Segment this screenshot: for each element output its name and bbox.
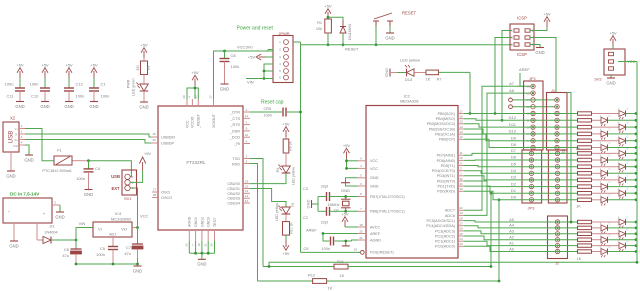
capacitor C8 100n [220, 50, 240, 92]
capacitor C6 47u [62, 240, 81, 264]
ground rail of regulator [75, 258, 143, 273]
svg-text:PC3(ADC3): PC3(ADC3) [435, 229, 456, 233]
svg-text:100n: 100n [101, 94, 110, 99]
svg-text:C4: C4 [95, 166, 101, 171]
wire R11 to PD1 [490, 192, 493, 268]
svg-text:+5V: +5V [144, 151, 152, 156]
svg-text:A6: A6 [509, 88, 515, 93]
svg-text:C12: C12 [76, 82, 84, 87]
svg-text:MEGA328: MEGA328 [400, 99, 419, 104]
capacitor C3 22pf [303, 184, 358, 201]
svg-text:PD3(INT1): PD3(INT1) [437, 174, 456, 178]
svg-text:R1: R1 [317, 21, 322, 25]
ground ICSP pin6 [530, 45, 545, 55]
svg-text:A1: A1 [509, 240, 515, 245]
resistor R12 1K [258, 273, 499, 291]
LED array A5-A0 with 1K resistors [577, 217, 638, 261]
wire D6 row [464, 155, 577, 161]
svg-text:D0: D0 [511, 195, 517, 200]
svg-text:C: C [627, 161, 629, 164]
svg-text:PC2(ADC2): PC2(ADC2) [435, 234, 456, 238]
capacitor C5 100n [96, 246, 118, 264]
svg-text:D-: D- [15, 133, 18, 136]
svg-text:D13: D13 [405, 77, 413, 82]
svg-text:GND3: GND3 [207, 217, 211, 227]
svg-text:18: 18 [197, 243, 201, 247]
svg-text:PC1(ADC1): PC1(ADC1) [435, 240, 456, 244]
header J3 [548, 150, 567, 203]
svg-text:C10: C10 [31, 94, 39, 99]
svg-text:1K: 1K [576, 205, 581, 209]
header JP3 [522, 150, 542, 211]
svg-text:R9 1K: R9 1K [289, 141, 293, 151]
svg-text:D9: D9 [511, 135, 517, 140]
LED yellow D13 [384, 57, 420, 82]
svg-text:_RI: _RI [233, 142, 240, 146]
svg-text:22: 22 [245, 184, 249, 188]
svg-text:C5: C5 [100, 246, 106, 251]
wire D5 row [464, 161, 577, 166]
svg-text:VCC: VCC [185, 120, 189, 128]
+5V to FT232 VCC [187, 70, 199, 99]
+5V from SV1 center [130, 151, 151, 182]
svg-text:C: C [609, 194, 611, 197]
svg-text:C11: C11 [6, 94, 14, 99]
svg-text:C: C [609, 155, 611, 158]
svg-text:3V3OUT: 3V3OUT [212, 113, 216, 128]
switch S1 RESET [373, 11, 416, 47]
USB connector X2 [3, 116, 25, 153]
wire D11 row [464, 122, 577, 127]
ground crystal caps [306, 197, 319, 212]
svg-text:PC6(/RESET): PC6(/RESET) [370, 251, 394, 255]
svg-text:LED yellow: LED yellow [400, 57, 420, 62]
svg-text:SV1: SV1 [124, 196, 132, 201]
FT232 pins OSCI OSCO [152, 188, 172, 201]
svg-text:22pf: 22pf [321, 184, 329, 188]
svg-text:15: 15 [459, 120, 463, 124]
crystal Q1 16MHz [327, 197, 350, 213]
svg-text:AGND: AGND [370, 238, 381, 242]
svg-text:A7: A7 [509, 81, 515, 86]
ground DC jack sleeve [55, 205, 64, 219]
svg-text:VCC: VCC [370, 167, 378, 171]
svg-text:1K: 1K [426, 78, 431, 82]
svg-text:D10: D10 [509, 129, 517, 134]
svg-text:+5V: +5V [191, 70, 199, 75]
svg-text:100n: 100n [231, 64, 240, 69]
svg-text:22: 22 [459, 206, 463, 210]
svg-text:+5V: +5V [343, 143, 351, 148]
svg-text:16: 16 [152, 132, 156, 136]
svg-text:IC2: IC2 [404, 93, 411, 98]
resistor R11 1K [263, 259, 491, 278]
svg-text:F1: F1 [57, 148, 62, 153]
svg-text:31: 31 [459, 182, 463, 186]
ground X2 pin4 [24, 145, 33, 162]
svg-text:17: 17 [209, 95, 213, 99]
svg-text:C: C [627, 240, 629, 243]
svg-text:C3: C3 [303, 187, 308, 191]
svg-text:13: 13 [459, 130, 463, 134]
svg-text:PD4(XCK/T0): PD4(XCK/T0) [432, 169, 456, 173]
svg-text:+5V: +5V [248, 55, 256, 60]
svg-text:VIN: VIN [247, 80, 254, 85]
svg-text:C1: C1 [101, 82, 107, 87]
svg-text:+5V: +5V [140, 42, 148, 47]
svg-text:23: 23 [459, 242, 463, 246]
svg-text:C: C [627, 188, 629, 191]
capacitor C13 reset cap [250, 99, 301, 117]
svg-text:D1: D1 [511, 188, 517, 193]
svg-text:+5V: +5V [341, 211, 349, 216]
svg-text:GND: GND [385, 35, 394, 40]
wire D12 row [464, 115, 577, 120]
wire mid rail to right [268, 262, 637, 268]
wire USBDM [25, 134, 158, 137]
svg-text:D12: D12 [509, 115, 517, 120]
wire ICSP MOSI [530, 38, 556, 93]
svg-text:GND: GND [606, 80, 615, 85]
MEGA328 right pins PB PD ADC PC [426, 109, 464, 248]
FT232 left pins USBDM USBDP [151, 132, 175, 145]
wire D0 row [464, 191, 577, 200]
svg-text:GND: GND [64, 104, 73, 109]
ground DC jack pin [9, 223, 18, 248]
LED green PWR [127, 75, 149, 96]
svg-text:28: 28 [459, 216, 463, 220]
svg-text:GND: GND [341, 188, 350, 193]
svg-text:100n: 100n [96, 252, 105, 257]
svg-text:C: C [627, 135, 629, 138]
svg-text:AREF: AREF [306, 227, 317, 232]
svg-text:ADC6: ADC6 [445, 214, 455, 218]
svg-text:C: C [609, 223, 611, 226]
svg-text:CBUS0: CBUS0 [227, 182, 240, 186]
capacitor C4 100n [76, 159, 101, 197]
svg-text:1K: 1K [576, 147, 581, 151]
svg-text:C8: C8 [231, 53, 237, 58]
svg-text:C: C [609, 246, 611, 249]
capacitor C11 with +5V and GND [5, 62, 25, 109]
svg-text:GND1: GND1 [194, 217, 198, 227]
wire D13 row [464, 113, 577, 115]
svg-text:GND: GND [40, 104, 49, 109]
svg-text:DC In 7,5-14V: DC In 7,5-14V [10, 192, 40, 197]
wire D1 row [464, 186, 577, 193]
svg-text:VCC: VCC [370, 159, 378, 163]
svg-text:26: 26 [210, 243, 214, 247]
svg-text:GND: GND [133, 268, 142, 273]
wire VCC from regulator [130, 188, 149, 228]
wire A1 row [464, 240, 577, 245]
wire D13 to PB5 [439, 72, 472, 115]
wire TXD loop to PD1 [250, 159, 263, 267]
svg-text:EXT: EXT [111, 186, 120, 191]
FT232 pins TXD RXD [232, 154, 250, 166]
svg-text:LED yellow: LED yellow [275, 203, 279, 221]
wire JPWR pin4 pin5 VIN [246, 64, 273, 85]
svg-text:PC4(ADC4/SDA): PC4(ADC4/SDA) [426, 224, 456, 228]
svg-text:14: 14 [245, 194, 249, 198]
FT232 bottom pins AGND GND TEST to ground [185, 216, 217, 266]
svg-text:A5: A5 [509, 217, 515, 222]
+5V to MEGA VCC pins [343, 143, 358, 170]
svg-text:RXD: RXD [232, 162, 240, 166]
DC input connector X1 [3, 192, 60, 224]
svg-text:X2: X2 [10, 116, 16, 121]
svg-text:1K: 1K [340, 273, 345, 278]
ground below PWR LED [139, 91, 148, 110]
svg-text:D3: D3 [511, 175, 517, 180]
svg-text:D11: D11 [509, 122, 517, 127]
wire A6 from ADC6 [464, 88, 533, 216]
svg-text:PD5(T1): PD5(T1) [441, 164, 456, 168]
svg-text:PWR: PWR [127, 79, 131, 88]
MEGA PC6 /RESET pin [354, 248, 395, 255]
wire D2 row [464, 181, 577, 187]
wire RESET vertical from JPWR [299, 45, 302, 253]
svg-text:_DSR: _DSR [229, 129, 240, 133]
svg-text:VIN: VIN [79, 221, 86, 226]
svg-text:+5V: +5V [282, 251, 290, 256]
svg-text:OSCI: OSCI [161, 191, 170, 195]
svg-text:47u: 47u [124, 251, 131, 256]
header J1 [547, 88, 568, 150]
wire JPWR pin1 RESET net [293, 42, 301, 45]
svg-text:GND: GND [220, 86, 229, 91]
svg-text:SV2: SV2 [594, 77, 602, 82]
svg-text:D5: D5 [511, 161, 517, 166]
LED yellow RX [276, 153, 296, 185]
svg-text:23: 23 [245, 179, 249, 183]
svg-text:17: 17 [459, 109, 463, 113]
svg-text:GND: GND [384, 68, 389, 77]
svg-text:+5V: +5V [324, 3, 332, 8]
svg-text:TX: TX [291, 202, 295, 207]
svg-text:1N4148WS: 1N4148WS [348, 24, 352, 40]
svg-text:11: 11 [459, 151, 462, 155]
svg-text:C: C [609, 115, 611, 118]
svg-text:PD2(INT0): PD2(INT0) [437, 179, 456, 183]
svg-text:C2: C2 [303, 216, 308, 220]
regulator IC4 MC33269D [93, 211, 138, 246]
ground MEGA GND pins [341, 178, 358, 193]
svg-text:29: 29 [354, 248, 358, 252]
svg-text:AREF: AREF [519, 67, 530, 72]
svg-text:ADJ: ADJ [109, 233, 116, 237]
svg-text:+5V: +5V [609, 30, 617, 35]
wire D3 row [464, 175, 577, 180]
svg-text:30: 30 [459, 187, 463, 191]
svg-text:PD1(TXD): PD1(TXD) [437, 185, 455, 189]
FT232 top pins VCC VCCIO RESET 3V3OUT [182, 95, 216, 129]
svg-text:12: 12 [245, 199, 249, 203]
svg-text:D7: D7 [511, 148, 517, 153]
wire VCC rail right [625, 62, 638, 264]
MEGA XTAL pins PB7 PB6 [358, 192, 405, 214]
svg-text:A4: A4 [509, 223, 515, 228]
svg-text:C: C [627, 228, 629, 231]
svg-text:C7: C7 [126, 245, 132, 250]
svg-text:VCCIO: VCCIO [191, 116, 195, 128]
svg-text:19: 19 [459, 211, 463, 215]
svg-text:28: 28 [153, 193, 157, 197]
svg-text:PC5(ADC5/SCL): PC5(ADC5/SCL) [427, 219, 456, 223]
svg-text:IC4: IC4 [115, 211, 122, 216]
svg-text:11: 11 [245, 114, 248, 118]
svg-text:CBUS2: CBUS2 [227, 192, 240, 196]
svg-text:JP1: JP1 [529, 76, 537, 81]
header JPWR power [237, 25, 294, 82]
svg-text:A3: A3 [509, 229, 515, 234]
svg-text:ICSP: ICSP [517, 16, 527, 21]
svg-text:TXD: TXD [232, 157, 240, 161]
wire ICSP SCK to D13 [494, 38, 512, 115]
wire USBDP [25, 140, 158, 144]
svg-text:47u: 47u [62, 253, 69, 258]
FT232 pins CBUS0-CBUS4 [227, 179, 250, 205]
svg-text:CBUS1: CBUS1 [227, 187, 240, 191]
svg-text:VO: VO [121, 227, 127, 232]
connector SV2 [594, 30, 635, 85]
svg-text:GND: GND [89, 104, 98, 109]
svg-text:GND: GND [9, 243, 18, 248]
svg-text:PB0(ICP): PB0(ICP) [439, 138, 456, 142]
svg-text:OSCO: OSCO [161, 196, 172, 200]
svg-text:330: 330 [136, 65, 140, 71]
svg-text:C: C [627, 217, 629, 220]
svg-text:Gnd: Gnd [13, 145, 18, 148]
svg-text:RESET: RESET [402, 11, 416, 16]
svg-text:A0: A0 [509, 246, 515, 251]
svg-text:+5V: +5V [41, 62, 49, 67]
svg-text:100n: 100n [264, 113, 272, 117]
node AREF label [519, 67, 530, 86]
FT232 right pins DTR CTS RTS DSR DCD RI [229, 108, 250, 146]
resistor R10 1K to +5V [282, 214, 293, 256]
svg-text:32: 32 [459, 177, 463, 181]
svg-text:100n: 100n [322, 247, 330, 251]
MEGA328 left power pins VCC VCC GND GND [358, 157, 379, 189]
svg-text:CBUS4: CBUS4 [227, 202, 240, 206]
svg-text:12: 12 [459, 135, 463, 139]
wire RXD loop to PD0 [250, 164, 258, 282]
svg-text:TEST: TEST [213, 217, 217, 227]
svg-text:PB3(MOSI/OC2): PB3(MOSI/OC2) [427, 122, 456, 126]
wire RX LED to CBUS0 [250, 173, 286, 184]
ground X2 shield [6, 152, 15, 178]
svg-text:D8: D8 [511, 142, 517, 147]
svg-text:PB7(XTAL2/TOSC2): PB7(XTAL2/TOSC2) [370, 195, 405, 199]
svg-text:VCC: VCC [140, 214, 149, 219]
svg-text:C: C [609, 181, 611, 184]
svg-text:GND: GND [535, 50, 544, 55]
svg-text:R10 1K: R10 1K [290, 222, 294, 234]
svg-text:R12: R12 [308, 273, 316, 278]
svg-text:10: 10 [245, 133, 249, 137]
svg-text:100n: 100n [76, 176, 85, 181]
wire ICSP MISO to D12 [501, 31, 512, 122]
+5V at ICSP pin2 [530, 11, 551, 30]
svg-text:100n: 100n [30, 82, 39, 87]
svg-text:PTC1812 500mA: PTC1812 500mA [42, 169, 72, 173]
jumper SV1 USB/EXT [111, 170, 136, 201]
svg-text:FT232RL: FT232RL [186, 160, 206, 165]
svg-text:_DTR: _DTR [229, 111, 240, 115]
svg-text:VI: VI [98, 227, 102, 232]
svg-text:24: 24 [459, 237, 463, 241]
wire PC6 to RESET vertical [301, 251, 361, 253]
wire D8 row [464, 139, 577, 147]
wire J1 to J2 vertical [567, 93, 572, 224]
resistor R9 1K with +5V [282, 121, 292, 153]
diode D1 1N4004 [37, 223, 58, 244]
svg-text:1N4004: 1N4004 [44, 231, 57, 235]
svg-text:21: 21 [203, 243, 207, 247]
wire VCC3V0 to 3V3OUT [214, 45, 274, 100]
svg-text:GND: GND [84, 192, 93, 197]
svg-text:GND: GND [24, 157, 33, 162]
wire USB VBUS to fuse [25, 129, 54, 161]
capacitor C2 22pf [303, 207, 358, 225]
svg-text:R8: R8 [147, 66, 151, 70]
header J2 [548, 216, 568, 266]
svg-text:25: 25 [185, 243, 189, 247]
svg-text:1K: 1K [577, 257, 582, 261]
svg-text:AREF: AREF [370, 232, 381, 236]
svg-text:PB1(OC1A): PB1(OC1A) [435, 133, 456, 137]
svg-text:Reset cap: Reset cap [261, 99, 284, 105]
svg-text:PD6(AIN0): PD6(AIN0) [437, 159, 456, 163]
svg-text:+5V: +5V [543, 11, 551, 16]
diode D2 1N4148WS [340, 20, 352, 46]
wire A2 row [464, 235, 577, 240]
svg-text:AVCC: AVCC [370, 225, 381, 229]
svg-text:USB: USB [8, 131, 15, 144]
MEGA analog pins AVCC AREF AGND [358, 223, 381, 243]
svg-text:C: C [627, 122, 629, 125]
svg-text:16MHz: 16MHz [327, 203, 339, 207]
svg-text:PC0(ADC0): PC0(ADC0) [435, 245, 456, 249]
svg-text:GND: GND [15, 104, 24, 109]
svg-text:+5V: +5V [65, 62, 73, 67]
svg-text:RX: RX [276, 167, 280, 172]
svg-text:26: 26 [459, 227, 463, 231]
wire D4 row [464, 168, 577, 173]
svg-text:21: 21 [359, 236, 363, 240]
svg-text:100n: 100n [5, 82, 14, 87]
IC2 MEGA328 body [366, 93, 458, 258]
capacitor C12 with +5V and GND [64, 62, 84, 109]
unconnected pads to JP1 [509, 98, 557, 109]
capacitor C10 with +5V and GND [30, 62, 50, 109]
svg-text:+5V: +5V [16, 62, 24, 67]
LED array D7-D0 with 1K resistors [576, 147, 638, 209]
wire A3 row [464, 229, 577, 234]
svg-text:+5V: +5V [90, 62, 98, 67]
IC1 FT232RL body [158, 106, 243, 230]
resistor R1 10k [316, 19, 332, 46]
svg-text:GND: GND [6, 173, 15, 178]
fuse F1 PTC1812 500mA [42, 148, 88, 174]
svg-text:C: C [609, 142, 611, 145]
svg-text:100n: 100n [76, 94, 85, 99]
wire A4 row [464, 223, 577, 228]
svg-text:22pf: 22pf [321, 221, 329, 225]
wire RESET net [301, 45, 513, 52]
svg-text:USB: USB [111, 174, 120, 179]
